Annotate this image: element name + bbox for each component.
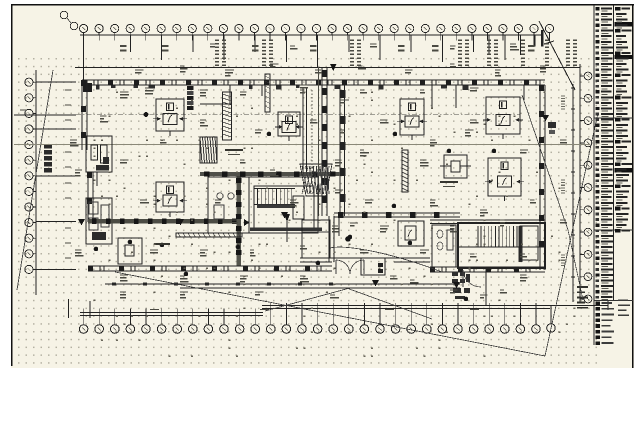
room annotation specks — [70, 44, 567, 298]
equipment unit C — [275, 112, 303, 141]
bottom dimension text — [150, 309, 479, 311]
legend panel border left — [593, 5, 595, 345]
equipment unit G — [440, 155, 471, 178]
duct bundle third line — [318, 67, 320, 216]
secondary wall vertical center — [339, 85, 345, 216]
terrace line middle 2 — [180, 287, 460, 289]
revision strike diagonal — [539, 21, 575, 90]
stair hall enclosure — [208, 177, 318, 233]
entrance double door arcs — [336, 260, 364, 274]
legend rows column 2 — [615, 7, 632, 233]
left dimension line — [14, 110, 76, 115]
leader line V right — [348, 289, 432, 320]
sill line ticks — [112, 283, 333, 286]
small rooms bottom middle — [302, 217, 424, 275]
bottom dimension line left pair — [80, 313, 263, 316]
drain line below stair — [485, 268, 487, 305]
shaft hatch band B — [402, 150, 408, 192]
partition lines top rooms — [200, 85, 524, 108]
extra axis bubble bottom right — [547, 306, 556, 333]
wall horizontal right wing — [430, 220, 545, 224]
room label hall — [440, 182, 458, 187]
equipment point markers — [94, 132, 497, 302]
bottom dimension line right pair — [262, 306, 608, 309]
site boundary diagonal left — [17, 70, 53, 290]
wall exterior left lower — [87, 172, 93, 222]
flow direction triangles — [78, 115, 549, 289]
equipment unit A — [153, 99, 187, 136]
stair core left upper — [86, 136, 112, 186]
axis bubble row bottom — [79, 303, 540, 333]
ramp hatch patch B — [300, 164, 332, 196]
left riser cluster — [44, 144, 52, 173]
right dimension text stack 2 — [561, 180, 565, 193]
wall bottom middle — [300, 258, 430, 262]
equipment unit E — [483, 97, 523, 139]
duct vertical center — [265, 74, 270, 112]
wall horizontal right wing upper — [334, 212, 460, 218]
upper datum line — [75, 67, 580, 69]
pipe run 2 — [330, 247, 442, 272]
corner column top left — [83, 83, 92, 92]
central wall lower segment — [329, 216, 334, 262]
wall exterior top — [82, 80, 545, 86]
ramp hatch patch A — [200, 137, 217, 163]
right dimension text stack 3 — [561, 255, 565, 265]
equipment unit D — [397, 99, 427, 140]
scattered survey marks — [94, 92, 576, 358]
legend section dividers — [594, 118, 633, 301]
dimension text top — [120, 46, 535, 51]
axis bubble column left — [25, 78, 36, 273]
fixture cluster below stair — [452, 272, 470, 299]
window sill dashed line left wing — [105, 283, 332, 285]
frame border left — [11, 4, 13, 366]
wall exterior right — [539, 85, 545, 270]
legend panel divider — [613, 5, 615, 300]
flow triangle on datum — [330, 64, 337, 71]
room label garage — [225, 150, 243, 155]
survey diagonal right upper — [522, 95, 568, 230]
axis label text columns top — [215, 40, 577, 65]
shaft hatch band A — [223, 92, 232, 140]
legend black bars column 2 — [615, 22, 633, 173]
wall exterior bottom right wing — [430, 267, 545, 273]
plan datum line horizontal — [14, 144, 590, 146]
top axis datum line — [80, 34, 542, 36]
partition vertical center — [303, 88, 312, 180]
thick drop stubs top right — [535, 30, 543, 47]
legend notes right lower — [618, 300, 630, 315]
equipment unit H small — [118, 238, 142, 264]
survey diagonal right lower — [568, 230, 583, 300]
right dimension line inner — [571, 84, 575, 302]
central corridor wall vertical — [322, 67, 328, 216]
detail bubbles top left — [60, 11, 78, 30]
frame border right — [632, 4, 634, 368]
survey diagonal bottom — [115, 272, 545, 356]
terrace line middle — [105, 283, 460, 285]
junction box right margin — [548, 122, 556, 134]
equipment unit F — [485, 158, 524, 201]
legend rows column 1 — [595, 7, 613, 300]
stair flight center — [250, 186, 322, 242]
plan datum dash line — [76, 114, 520, 116]
window mullion details top wall — [96, 86, 468, 90]
axis bubble column right — [580, 72, 592, 303]
wall exterior left upper — [81, 80, 87, 150]
note block bottom right — [577, 287, 588, 308]
dimension end tick right — [607, 301, 609, 310]
stair hall fixtures — [214, 193, 234, 219]
legend lower block — [595, 301, 614, 345]
datum node dot — [144, 112, 149, 117]
mid partition wall horizontal — [200, 171, 340, 176]
top axis drop lines — [84, 35, 521, 80]
washroom right wing — [432, 225, 456, 267]
washroom core left lower — [86, 198, 112, 244]
corridor wall left wing — [88, 218, 241, 223]
frame border top — [11, 4, 634, 6]
left axis datum line — [35, 70, 37, 295]
corridor triangle marker — [244, 219, 250, 226]
dot grid — [16, 56, 597, 365]
duct shaft dark A — [187, 86, 194, 110]
axis bubble row top — [80, 24, 554, 40]
survey diagonal right — [545, 113, 598, 356]
leader line V left — [265, 289, 348, 312]
stair flight right — [458, 223, 545, 268]
left axis ticks — [36, 82, 76, 269]
wall exterior bottom left wing — [88, 266, 332, 272]
duct run left wing — [0, 0, 1, 1]
room label storage — [154, 243, 170, 245]
equipment unit B — [153, 182, 187, 217]
left dimension text stack — [65, 90, 71, 258]
door arc right wing — [463, 270, 481, 287]
duct run corridor — [0, 0, 1, 1]
grade stub lines bottom left — [69, 299, 91, 318]
pipe run 1 — [176, 233, 242, 237]
right dimension text stack — [561, 96, 565, 109]
connector wall vertical — [236, 176, 242, 266]
right dimension line outer — [579, 64, 581, 302]
